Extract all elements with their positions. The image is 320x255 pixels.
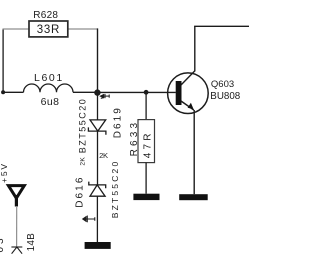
junction dot left rail [1, 90, 5, 94]
zener diode D619 [88, 120, 106, 135]
power +5V triangle [8, 186, 24, 199]
wire R633 tap down [145, 92, 147, 119]
svg-text:R628: R628 [33, 10, 58, 21]
transistor Q603 base bar [176, 81, 182, 105]
svg-text:03: 03 [0, 235, 6, 252]
transistor Q603 emitter stroke [181, 101, 194, 110]
connector chevron bottom [11, 247, 22, 254]
svg-text:2K: 2K [80, 157, 87, 166]
wire top right to edge [194, 25, 249, 27]
wire emitter down [193, 110, 195, 194]
wire D619 cathode to D616 cathode [97, 131, 99, 185]
junction dot R633 tap [144, 90, 149, 95]
resistor R628 [29, 21, 68, 37]
wire top-left stub to R628 [3, 28, 30, 30]
transistor Q603 emitter arrowhead [188, 103, 194, 110]
wire D616 anode to ground [96, 196, 98, 242]
svg-text:BZT55C20: BZT55C20 [110, 160, 120, 219]
wire base feed to Q603 [98, 91, 176, 93]
svg-text:33R: 33R [37, 24, 60, 36]
svg-text:14B: 14B [26, 233, 37, 252]
ground emitter [179, 194, 208, 200]
svg-text:D619: D619 [113, 106, 124, 138]
ground R633 [133, 194, 159, 200]
wire collector up [194, 26, 196, 71]
transistor Q603 collector stroke [181, 71, 195, 85]
wire inductor row left [3, 91, 24, 93]
inductor L601 [24, 84, 74, 92]
svg-text:BZT55C20: BZT55C20 [78, 98, 88, 154]
wire +5V feed down [16, 206, 18, 247]
svg-text:K: K [103, 151, 108, 160]
wire R628 right stub [68, 28, 98, 30]
svg-text:L601: L601 [34, 72, 64, 84]
wire inductor row right [73, 91, 98, 93]
svg-text:Q603: Q603 [211, 79, 234, 90]
power +5V stem [15, 195, 18, 207]
wire R633 to ground [145, 163, 147, 194]
svg-text:47R: 47R [143, 130, 154, 158]
wire left rail vertical [2, 29, 4, 92]
junction dot node A [94, 89, 100, 95]
svg-text:+5V: +5V [0, 162, 9, 183]
resistor R633 [138, 120, 155, 163]
wire node A down to D619 [97, 92, 99, 120]
wire right vertical from R628 down to node A [97, 28, 99, 92]
svg-text:BU808: BU808 [210, 91, 241, 102]
zener diode D616 [89, 182, 106, 197]
svg-text:6u8: 6u8 [41, 96, 60, 108]
transistor Q603 circle [168, 73, 209, 114]
anode arrow marker D616 [83, 216, 95, 223]
svg-text:D616: D616 [74, 175, 85, 207]
ground D616 [85, 242, 111, 249]
node A anode arrow marker [100, 94, 109, 99]
